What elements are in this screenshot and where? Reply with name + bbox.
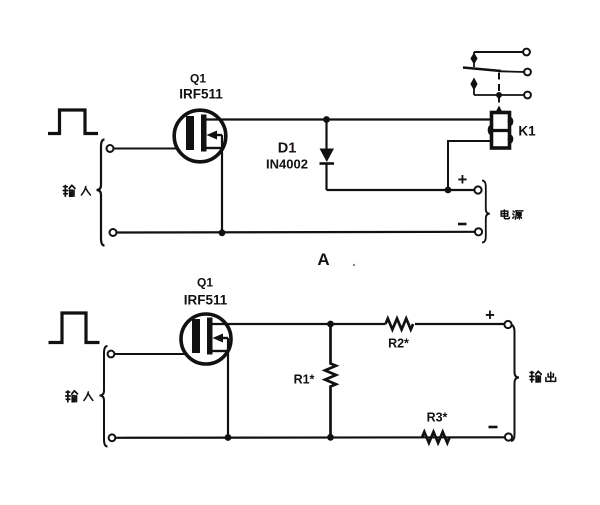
label - (power)	[458, 223, 467, 226]
resistor R3 (horizontal, on bottom rail)	[422, 432, 450, 443]
input pulse waveform (bottom circuit)	[49, 313, 100, 343]
- terminal (power supply)	[475, 228, 482, 235]
input terminal top (bottom circuit)	[108, 351, 115, 358]
svg-text:IN4002: IN4002	[266, 157, 308, 172]
junction: source to bottom rail	[219, 229, 226, 236]
svg-text:R1*: R1*	[294, 373, 315, 387]
svg-text:K1: K1	[518, 124, 536, 139]
junction: R1 bottom node	[327, 434, 334, 441]
wire: input top terminal to gate of Q1 (bottom)	[115, 353, 194, 355]
svg-text:Q1: Q1	[190, 72, 206, 86]
relay contacts: top fixed contact line	[474, 51, 523, 53]
label 输出 (output)	[530, 371, 556, 382]
relay terminal circle middle	[524, 69, 531, 76]
svg-text:Q1: Q1	[197, 276, 213, 290]
input terminal bottom (bottom circuit)	[109, 434, 116, 441]
relay link arrow down (top)	[470, 52, 477, 67]
relay middle contact line	[501, 70, 524, 73]
wire: relay coil bottom feed	[448, 141, 492, 188]
brace for input terminals (top circuit)	[97, 140, 105, 246]
label - (output)	[489, 426, 498, 429]
arrowhead at coil top	[495, 106, 502, 113]
resistor R1 (vertical)	[325, 324, 336, 437]
relay link arrow up (bottom)	[470, 78, 477, 96]
junction: + node	[445, 187, 452, 194]
relay armature (movable contact)	[463, 68, 501, 72]
svg-text:R2*: R2*	[388, 337, 409, 351]
diode D1 (vertical)	[320, 120, 335, 191]
relay coil K1	[488, 113, 514, 149]
junction: dashed link on bottom contact line	[496, 92, 502, 98]
MOSFET Q1 (bottom circuit)	[181, 314, 231, 364]
brace for input terminals (bottom circuit)	[100, 346, 108, 447]
wire: bottom rail (bottom circuit)	[116, 436, 506, 439]
label 输入 (input, bottom circuit)	[66, 391, 93, 402]
- output terminal	[505, 433, 512, 440]
brace for output	[511, 325, 519, 442]
junction: source to bottom rail (bottom circuit)	[225, 434, 232, 441]
wire: source of Q1 down to bottom rail	[221, 135, 223, 233]
input terminal bottom (top circuit)	[110, 229, 117, 236]
+ output terminal	[504, 321, 511, 328]
dashed mechanical link to coil	[498, 73, 500, 107]
junction: drain line / diode node	[323, 116, 330, 123]
svg-text:+: +	[458, 171, 468, 189]
svg-text:A: A	[317, 250, 329, 269]
wire: drain rail (bottom circuit)	[213, 323, 386, 325]
wire: source of Q1 (bottom) down to rail	[227, 338, 229, 438]
relay terminal circle bottom	[524, 92, 531, 99]
input pulse waveform (top circuit)	[48, 110, 98, 134]
resistor R2 (horizontal)	[386, 319, 414, 330]
speck	[353, 264, 355, 266]
svg-text:+: +	[485, 307, 495, 325]
svg-text:IRF511: IRF511	[184, 293, 228, 308]
wire: drain rail right of R2	[415, 323, 505, 325]
wire: diode return to + terminal	[327, 189, 476, 191]
relay terminal circle top	[523, 49, 530, 56]
brace for power supply	[482, 181, 490, 243]
relay bottom fixed contact line	[474, 94, 524, 96]
wire: drain of Q1 to relay coil	[206, 118, 493, 120]
MOSFET Q1 (top circuit)	[174, 110, 226, 162]
label 电源 (power)	[501, 210, 523, 219]
wire: input top terminal to gate of Q1	[114, 148, 188, 150]
svg-text:IRF511: IRF511	[179, 87, 223, 102]
wire: bottom rail of top circuit	[117, 231, 476, 234]
+ terminal (power supply)	[474, 186, 481, 193]
input terminal top (gate side, top circuit)	[107, 145, 114, 152]
label 输入 (input, top circuit)	[63, 185, 90, 196]
svg-text:D1: D1	[278, 141, 297, 157]
svg-text:R3*: R3*	[427, 411, 448, 425]
junction: R1 top node	[327, 321, 334, 328]
